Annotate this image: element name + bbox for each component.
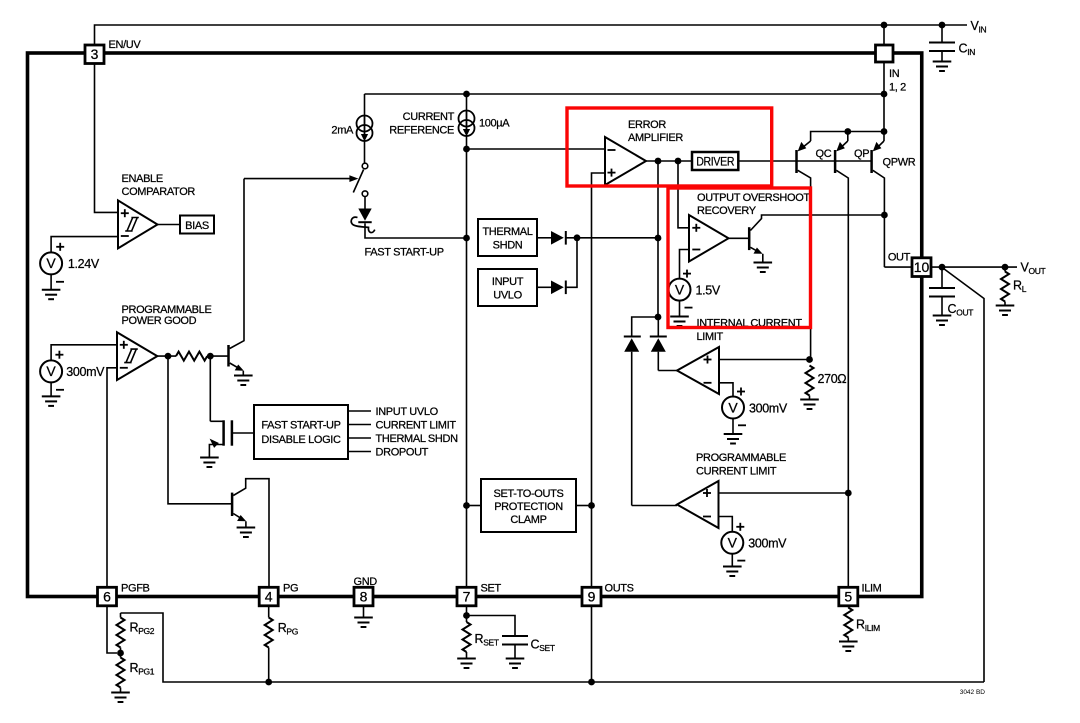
capacitor COUT	[929, 267, 973, 325]
svg-text:UVLO: UVLO	[493, 289, 522, 301]
wire pgood plus to 300mV	[51, 345, 117, 361]
pin 10 OUT	[888, 251, 931, 276]
capacitor CIN	[929, 25, 975, 71]
wire 2mA/100uA top rail	[365, 93, 885, 95]
svg-text:QP: QP	[854, 148, 869, 160]
svg-text:10: 10	[914, 259, 930, 275]
resistor pgood series	[176, 352, 207, 361]
svg-text:DISABLE LOGIC: DISABLE LOGIC	[261, 434, 341, 446]
svg-text:2mA: 2mA	[331, 125, 354, 137]
node top rail at 100uA	[463, 91, 470, 98]
pin 8 GND	[354, 576, 378, 627]
wire fast start-up to SET node	[365, 223, 467, 238]
resistor 270 ohm	[800, 366, 846, 410]
svg-text:BIAS: BIAS	[185, 220, 209, 232]
wire emitter rail	[811, 132, 884, 142]
svg-text:270Ω: 270Ω	[818, 372, 847, 386]
pin 5 ILIM	[839, 583, 882, 606]
wire pgood node down to PG transistor base	[168, 356, 232, 504]
svg-text:7: 7	[463, 588, 471, 604]
svg-text:EN/UV: EN/UV	[109, 39, 142, 51]
node bottom rail PG	[265, 679, 272, 686]
transistor PG pull NPN	[232, 479, 269, 588]
wire overshoot comp minus to 1.5V	[680, 250, 690, 279]
wire to programmable limit comparator apex	[632, 505, 677, 507]
node error amp output	[655, 158, 662, 165]
node pgood output	[165, 353, 172, 360]
red highlight box error amplifier	[567, 108, 772, 186]
op-amp overshoot comparator	[689, 215, 729, 262]
wire EN/UV to enable comparator	[95, 64, 119, 213]
diode fast start-up	[351, 209, 375, 233]
wire pgood output	[157, 355, 176, 357]
svg-text:1, 2: 1, 2	[889, 82, 906, 94]
transistor QPWR	[872, 132, 916, 268]
wire switch control arrow	[244, 175, 358, 182]
wire OUT pin to VOUT	[931, 266, 1017, 268]
svg-text:THERMAL SHDN: THERMAL SHDN	[376, 433, 459, 445]
svg-text:300mV: 300mV	[748, 537, 787, 551]
svg-text:1.24V: 1.24V	[68, 257, 100, 271]
svg-text:COMPARATOR: COMPARATOR	[122, 186, 196, 198]
svg-text:IN: IN	[889, 68, 900, 80]
switch fast start-up	[353, 163, 368, 208]
box INPUT UVLO	[478, 269, 537, 306]
box FAST START-UP DISABLE LOGIC	[254, 405, 348, 459]
op-amp programmable current limit comparator	[677, 481, 719, 528]
wire error amp output down to diode pair	[657, 161, 659, 238]
wire pin 6 to RPG divider	[107, 606, 117, 653]
resistor RPG2	[117, 613, 155, 653]
svg-text:INPUT: INPUT	[492, 276, 524, 288]
svg-text:ILIM: ILIM	[862, 583, 882, 595]
node RPG divider tap	[117, 650, 124, 657]
svg-text:REFERENCE: REFERENCE	[389, 125, 454, 137]
svg-text:PROTECTION: PROTECTION	[494, 501, 563, 513]
svg-text:RECOVERY: RECOVERY	[697, 205, 757, 217]
transistor Q fast start-up control NPN	[229, 179, 253, 385]
resistor RILIM	[839, 606, 880, 651]
chip boundary	[28, 53, 922, 597]
node bottom rail OUTS	[588, 679, 595, 686]
diode clamp right	[650, 317, 667, 371]
node 270 ohm tap	[806, 356, 813, 363]
pin 4 PG	[259, 583, 298, 606]
svg-text:INPUT UVLO: INPUT UVLO	[376, 406, 439, 418]
node COUT tap	[939, 264, 946, 271]
box DRIVER	[692, 152, 738, 170]
node CIN tap	[939, 22, 946, 29]
red highlight box output overshoot recovery	[668, 188, 811, 328]
op-amp programmable power good comparator	[117, 332, 157, 380]
svg-text:ENABLE: ENABLE	[122, 173, 163, 185]
wire output feedback diagonal	[944, 269, 985, 683]
node SET line top	[463, 146, 470, 153]
svg-text:6: 6	[103, 588, 111, 604]
diode thermal shdn output	[537, 231, 658, 245]
wire to internal limit comparator apex	[658, 370, 677, 372]
wire driver output base rail	[738, 160, 871, 162]
wire SET vertical line	[466, 149, 468, 588]
node clamp OUTS side	[588, 502, 595, 509]
node thermal/uvlo join	[574, 234, 581, 241]
svg-text:1.5V: 1.5V	[696, 283, 721, 297]
svg-text:SET-TO-OUTS: SET-TO-OUTS	[494, 488, 564, 500]
current source 2mA	[331, 94, 372, 163]
wire error amp plus to OUTS line	[592, 173, 606, 588]
svg-text:8: 8	[360, 588, 368, 604]
node after resistor	[207, 353, 214, 360]
voltage source 300mV internal limit	[722, 388, 788, 444]
svg-text:4: 4	[265, 588, 273, 604]
wire resistor to Q base	[207, 355, 229, 357]
node diode row	[655, 235, 662, 242]
svg-text:AMPLIFIER: AMPLIFIER	[628, 132, 683, 144]
svg-text:300mV: 300mV	[66, 365, 105, 379]
op-amp error amplifier	[605, 137, 646, 185]
wire IN pin to internal rails	[883, 25, 885, 132]
svg-text:3042 BD: 3042 BD	[960, 689, 986, 696]
capacitor CSET	[502, 636, 555, 668]
diode clamp left	[624, 337, 641, 506]
node emitter rail QP	[844, 128, 851, 135]
svg-text:FAST START-UP: FAST START-UP	[261, 420, 340, 432]
op-amp internal current limit comparator	[677, 347, 719, 394]
svg-text:DRIVER: DRIVER	[696, 154, 735, 168]
wire top rail VIN	[95, 25, 968, 45]
node IN top	[881, 22, 888, 29]
wire enable comp minus to 1.24V	[51, 237, 118, 253]
wire error amp output	[646, 160, 692, 162]
node diode pair	[655, 314, 662, 321]
svg-text:PGFB: PGFB	[121, 583, 150, 595]
svg-text:CLAMP: CLAMP	[510, 514, 546, 526]
resistor RPG1	[111, 653, 155, 702]
svg-text:PROGRAMMABLE: PROGRAMMABLE	[696, 452, 786, 464]
wire error amp minus input	[467, 148, 606, 150]
svg-text:PG: PG	[283, 583, 298, 595]
svg-text:9: 9	[588, 588, 596, 604]
wire overshoot comp plus input	[678, 161, 689, 228]
wire internal limit plus input	[719, 359, 810, 361]
svg-text:5: 5	[844, 588, 852, 604]
resistor RL	[996, 267, 1027, 315]
svg-text:OUTPUT OVERSHOOT: OUTPUT OVERSHOOT	[697, 192, 810, 204]
transistor QC	[797, 141, 832, 360]
op-amp enable comparator	[118, 200, 158, 248]
pin 6 PGFB	[98, 583, 150, 606]
node SET external	[463, 612, 470, 619]
svg-text:QPWR: QPWR	[883, 157, 916, 169]
pin IN 1,2	[876, 45, 907, 94]
wire diode pair top	[632, 238, 658, 337]
wire logic input stub DROPOUT	[348, 451, 371, 453]
resistor RPG	[265, 606, 298, 682]
wire pgood node down to mosfet	[209, 356, 211, 421]
pin 9 OUTS	[582, 583, 634, 682]
node RL tap	[1002, 264, 1009, 271]
wire enable comp output	[158, 224, 181, 226]
svg-text:SET: SET	[481, 583, 502, 595]
wire internal limit minus to 300mV	[719, 383, 733, 397]
box SET-TO-OUTS PROTECTION CLAMP	[467, 479, 592, 532]
voltage source 1.24V	[40, 243, 100, 299]
pin 3 EN/UV	[85, 39, 141, 64]
svg-text:100µA: 100µA	[479, 118, 510, 130]
wire pin 7 to RSET/CSET	[467, 606, 516, 636]
voltage source 300mV programmable limit	[721, 523, 787, 576]
node IN internal	[881, 91, 888, 98]
transistor mosfet fast start-up disable	[200, 420, 254, 467]
svg-text:CURRENT LIMIT: CURRENT LIMIT	[696, 465, 777, 477]
wire logic input stub THERMAL SHDN	[348, 437, 371, 439]
diode input uvlo output	[537, 238, 577, 294]
svg-text:3: 3	[91, 46, 99, 62]
node driver input tap	[675, 158, 682, 165]
wire logic input stub INPUT UVLO	[348, 410, 371, 412]
svg-text:LIMIT: LIMIT	[697, 331, 724, 343]
node ILIM line	[845, 490, 852, 497]
wire pgood minus to PGFB	[107, 368, 117, 588]
voltage source 300mV pgood	[40, 351, 105, 406]
svg-text:CURRENT: CURRENT	[403, 111, 455, 123]
svg-text:CURRENT LIMIT: CURRENT LIMIT	[376, 420, 457, 432]
pin 7 SET	[457, 583, 501, 606]
box THERMAL SHDN	[478, 219, 537, 256]
svg-text:ERROR: ERROR	[628, 119, 666, 131]
svg-text:SHDN: SHDN	[493, 239, 523, 251]
svg-text:THERMAL: THERMAL	[482, 226, 532, 238]
svg-text:QC: QC	[816, 148, 832, 160]
svg-text:OUT: OUT	[888, 251, 911, 263]
wire programmable limit minus to 300mV	[719, 517, 733, 532]
wire logic input stub CURRENT LIMIT	[348, 424, 371, 426]
transistor overshoot NPN	[729, 215, 885, 272]
node fast start-up SET	[463, 235, 470, 242]
svg-text:300mV: 300mV	[749, 401, 788, 415]
wire programmable limit plus input	[719, 492, 849, 494]
svg-text:FAST START-UP: FAST START-UP	[365, 247, 444, 259]
svg-text:OUTS: OUTS	[605, 583, 634, 595]
wire bottom OUTS rail	[121, 613, 985, 682]
transistor QP	[835, 132, 869, 589]
svg-text:DROPOUT: DROPOUT	[376, 447, 429, 459]
resistor RSET	[457, 616, 499, 669]
node clamp SET side	[463, 502, 470, 509]
wire QPWR collector to OUT pin	[884, 266, 912, 268]
box BIAS	[180, 216, 214, 234]
svg-text:POWER GOOD: POWER GOOD	[122, 315, 197, 327]
node QPWR collector overshoot tap	[881, 212, 888, 219]
voltage source 1.5V	[669, 270, 721, 326]
node emitter rail QPWR	[881, 128, 888, 135]
current source 100uA CURRENT REFERENCE	[389, 94, 510, 149]
